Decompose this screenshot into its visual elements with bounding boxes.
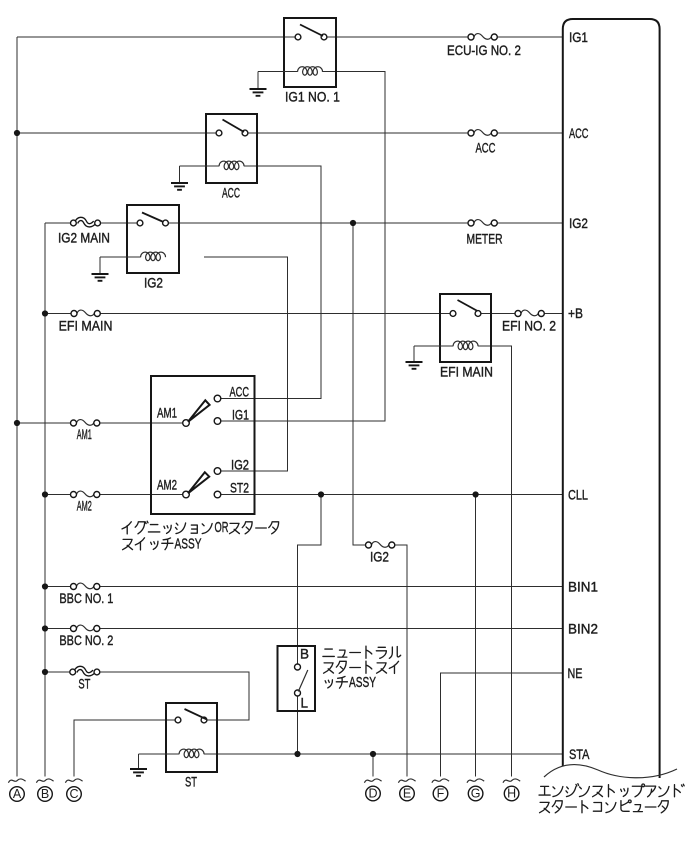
relay IG1 NO.1 box [284, 18, 336, 87]
svg-text:STA: STA [569, 747, 590, 762]
fuse AM1 [71, 420, 100, 426]
ignition switch AM1 lever blade [188, 400, 210, 422]
svg-text:BBC NO. 1: BBC NO. 1 [59, 591, 113, 606]
wire: ST relay coil to ECU pin STA [204, 753, 563, 755]
node: ST2 line / neutral switch branch junction [318, 491, 324, 497]
ground: IG1 NO.1 coil [250, 89, 267, 96]
wire: STA junction to connector D [372, 754, 374, 777]
connector B break squiggle [36, 779, 53, 783]
relay ST coil [179, 749, 204, 758]
wire: IG2 terminal to IG2 relay coil riser [204, 257, 288, 471]
wire: EFI MAIN relay to EFI NO.2 fuse [478, 313, 518, 315]
node: B bus / AM2 row junction [42, 491, 48, 497]
svg-text:ST: ST [185, 775, 197, 790]
wire: AM1 fuse to ignition switch AM1 terminal [97, 422, 183, 424]
svg-text:C: C [69, 787, 78, 801]
svg-text:ASSY: ASSY [175, 534, 202, 552]
relay IG2 coil [141, 252, 166, 261]
svg-text:H: H [507, 787, 516, 801]
svg-text:BIN1: BIN1 [568, 579, 598, 594]
wire: EFI NO.2 fuse to ECU pin +B [541, 313, 563, 315]
relay EFI MAIN contacts and lever [450, 311, 456, 317]
node: IG2 row / METER branch junction [350, 220, 356, 226]
fusible link IG2 MAIN [71, 219, 101, 226]
wire: IG2 relay to METER fuse [166, 222, 472, 224]
ground: ST coil [130, 769, 147, 776]
svg-text:IG2: IG2 [231, 458, 249, 473]
wire: BBC NO.1 fuse to ECU pin BIN1 [97, 586, 563, 588]
ignition switch AM2 lever blade [188, 472, 209, 493]
svg-text:CLL: CLL [568, 487, 588, 502]
svg-text:ECU-IG NO. 2: ECU-IG NO. 2 [447, 43, 521, 58]
label: ECU caption line 1 (katakana) [539, 784, 684, 797]
connector B [38, 787, 53, 802]
wire: EFI MAIN coil ground stem [413, 346, 415, 362]
relay ACC coil [219, 161, 244, 170]
svg-text:NE: NE [568, 666, 583, 681]
ignition switch AM2 pivot contact [183, 491, 190, 498]
ignition switch IG1 terminal [214, 418, 221, 425]
node: B bus / EFI MAIN row junction [42, 310, 48, 316]
svg-text:ACC: ACC [569, 127, 588, 141]
label: neutral start switch caption line 3 (katakana) [325, 676, 347, 688]
ECU connector box outline [563, 19, 660, 778]
svg-text:AM2: AM2 [157, 478, 177, 493]
svg-text:+B: +B [568, 305, 583, 321]
node: STA line / connector D junction [370, 751, 376, 757]
ignition switch ACC terminal [214, 395, 221, 402]
ignition switch IG2 terminal [214, 468, 221, 475]
svg-text:E: E [403, 787, 411, 801]
wire: ST2 terminal to ECU pin CLL [220, 494, 562, 496]
neutral start switch contacts and lever [295, 664, 301, 670]
wire: BBC NO.2 fuse to ECU pin BIN2 [97, 628, 563, 630]
fuse BBC NO.1 [71, 583, 100, 589]
ignition switch assembly box [151, 376, 255, 514]
wire: ACC row fuse to ECU pin ACC [494, 132, 563, 134]
wire: ST2 junction to neutral start switch B terminal [298, 495, 322, 665]
svg-text:IG1: IG1 [232, 407, 249, 423]
connector E [400, 786, 415, 801]
svg-text:G: G [471, 787, 481, 801]
relay ACC contacts and lever [216, 130, 222, 136]
connector E break squiggle [398, 779, 415, 783]
wire: ST relay left contact to connector C [74, 720, 175, 777]
connector H break squiggle [503, 779, 520, 783]
node: B bus / BIN1 row junction [42, 583, 48, 589]
relay IG1 NO.1 coil [298, 67, 323, 76]
connector D [366, 786, 381, 801]
svg-text:ACC: ACC [476, 141, 496, 156]
fuse METER [468, 220, 497, 226]
fuse BBC NO.2 [71, 625, 100, 631]
node: CLL line / connector G junction [473, 491, 479, 497]
connector A [10, 787, 25, 802]
relay IG2 box [127, 205, 179, 273]
wire: ACC row from A bus to relay contact [17, 132, 219, 134]
fuse ECU-IG NO.2 [468, 34, 497, 40]
fuse EFI MAIN [71, 310, 100, 316]
wire: IG1 terminal to IG1 NO.1 relay coil riser [220, 72, 385, 421]
connector A break squiggle [8, 779, 25, 783]
svg-text:BIN2: BIN2 [568, 621, 598, 636]
wire: CLL junction to connector G [475, 495, 477, 777]
wire: AM2 fuse to ignition switch AM2 terminal [97, 494, 183, 496]
svg-text:B: B [41, 787, 49, 801]
wire: EFI MAIN fuse to EFI MAIN relay contact [97, 313, 453, 315]
wire: BIN1 row from B bus to BBC NO.1 fuse [45, 586, 74, 588]
fuse ACC [468, 130, 497, 136]
fuse AM2 [71, 491, 100, 497]
wire: EFI MAIN relay coil to connector H [478, 346, 512, 777]
wire: IG1 row relay to fuse [324, 36, 471, 38]
relay ACC box [206, 114, 257, 183]
wire: ST row from B bus to ST fusible link [45, 671, 73, 673]
label: neutral start switch caption line 1 (katakana) [323, 646, 401, 658]
wire: IG2 MAIN fusible link to IG2 relay contact [98, 222, 140, 224]
node: STA line / neutral switch junction [294, 751, 300, 757]
connector G break squiggle [467, 779, 484, 783]
wire: IG1 NO.1 coil ground stem [257, 72, 259, 89]
svg-text:B: B [300, 647, 309, 662]
wire: ST coil ground stem [138, 754, 140, 769]
label: neutral start switch caption line 2 (katakana) [324, 661, 399, 673]
connector F break squiggle [432, 779, 449, 783]
svg-text:OR: OR [215, 519, 229, 536]
ignition switch ST2 terminal [214, 491, 221, 498]
connector C [67, 787, 82, 802]
svg-text:D: D [368, 787, 377, 801]
relay IG1 NO.1 contacts and lever [295, 34, 301, 40]
relay ST box [166, 703, 217, 772]
wire: METER junction branch through IG2 fuse to connector E [353, 223, 369, 545]
connector G [468, 786, 483, 801]
relay EFI MAIN box [440, 294, 491, 362]
fusible link ST [70, 668, 100, 675]
wire: BIN2 row from B bus to BBC NO.2 fuse [45, 628, 74, 630]
svg-text:IG2: IG2 [370, 550, 389, 565]
wire: METER fuse to ECU pin IG2 [494, 222, 563, 224]
svg-text:IG1 NO. 1: IG1 NO. 1 [285, 89, 340, 105]
wire: ST fusible link to ST relay contact [97, 672, 249, 720]
connector F [433, 786, 448, 801]
svg-text:ASSY: ASSY [349, 673, 376, 691]
svg-text:ST: ST [78, 677, 90, 692]
svg-text:IG2: IG2 [569, 216, 588, 231]
relay IG2 contacts and lever [137, 220, 143, 226]
ECU torn bottom edge [544, 765, 677, 778]
svg-text:IG2: IG2 [144, 276, 163, 291]
svg-text:METER: METER [467, 231, 503, 247]
node: B bus / BIN2 row junction [42, 625, 48, 631]
wire: IG2 coil ground stem [99, 257, 101, 274]
relay ST contacts and lever [175, 717, 181, 723]
fuse EFI NO.2 [515, 310, 544, 316]
node: A bus / AM1 row junction [14, 420, 20, 426]
svg-text:A: A [13, 787, 22, 801]
svg-text:EFI MAIN: EFI MAIN [59, 318, 113, 334]
wire: AM2 row from B bus to fuse [45, 494, 74, 496]
wire: neutral start switch L terminal to STA line [297, 696, 299, 754]
ground: IG2 coil [92, 274, 109, 281]
svg-text:BBC NO. 2: BBC NO. 2 [59, 633, 113, 648]
label: ignition switch caption line 1 (katakana) [122, 521, 279, 534]
node: B bus / ST row junction [42, 669, 48, 675]
label: ignition switch caption line 2 (katakana) [123, 538, 173, 550]
svg-text:AM1: AM1 [157, 406, 177, 421]
svg-text:AM2: AM2 [77, 499, 92, 514]
svg-text:ACC: ACC [230, 386, 249, 400]
relay EFI MAIN coil [453, 341, 478, 350]
svg-text:IG1: IG1 [569, 30, 588, 45]
wire: ACC coil ground stem [179, 166, 181, 183]
fuse IG2 [366, 542, 395, 548]
connector D break squiggle [364, 779, 381, 783]
label: ECU caption line 2 (katakana) [540, 800, 669, 813]
ignition switch AM1 pivot contact [183, 420, 190, 427]
svg-text:EFI MAIN: EFI MAIN [440, 364, 493, 380]
wire: EFI MAIN row from B bus to fuse [45, 313, 74, 315]
wire: A bus vertical [16, 37, 18, 777]
wire: IG1 row from A bus to relay contact [17, 36, 298, 38]
wire: ACC terminal to ACC relay coil riser [220, 166, 321, 399]
wire: IG2 MAIN row from B bus to fusible link [45, 222, 73, 224]
svg-text:AM1: AM1 [77, 428, 92, 443]
connector H [504, 786, 519, 801]
wire: IG1 row fuse to ECU pin IG1 [494, 36, 563, 38]
neutral start switch box [278, 646, 316, 711]
svg-text:ST2: ST2 [230, 480, 249, 496]
wire: ACC row relay to fuse [245, 132, 471, 134]
wire: IG2 fuse to connector E drop [392, 545, 407, 777]
wire: B bus vertical [44, 223, 46, 777]
connector C break squiggle [65, 779, 82, 783]
svg-text:L: L [301, 696, 309, 711]
ground: ACC coil [171, 183, 188, 190]
svg-text:EFI NO. 2: EFI NO. 2 [502, 318, 556, 334]
wire: AM1 row from A bus to fuse [17, 422, 74, 424]
ground: EFI MAIN coil [406, 362, 423, 369]
node: A bus / ACC row junction [14, 130, 20, 136]
wire: NE row from ECU pin NE to connector F [441, 673, 563, 777]
svg-text:F: F [437, 787, 445, 801]
svg-text:IG2 MAIN: IG2 MAIN [58, 231, 110, 246]
svg-text:ACC: ACC [222, 187, 240, 201]
